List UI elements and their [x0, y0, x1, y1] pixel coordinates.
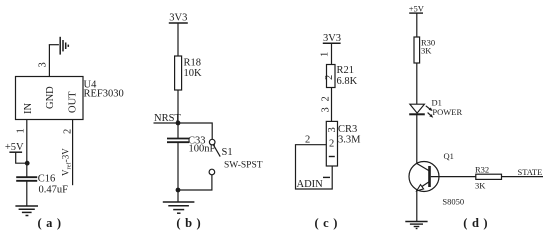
op-amp U4 box REF3030	[16, 77, 84, 120]
svg-text:2: 2	[324, 75, 335, 80]
node junction (a)	[25, 161, 30, 166]
svg-text:6.8K: 6.8K	[337, 76, 358, 87]
wire R32 to STATE	[502, 176, 544, 178]
LED light arrow 1	[426, 106, 433, 111]
svg-text:2: 2	[329, 139, 334, 150]
svg-text:2: 2	[305, 135, 310, 146]
wire emitter to ground	[416, 190, 418, 222]
LED light arrow 2	[428, 113, 434, 118]
resonator CR3 box	[326, 121, 337, 166]
svg-text:+5V: +5V	[5, 142, 24, 153]
svg-text:OUT: OUT	[68, 91, 79, 113]
resistor R21	[327, 65, 336, 88]
wire node to C33	[177, 123, 179, 139]
svg-text:1: 1	[320, 52, 331, 57]
ground (top of a, rotated right)	[60, 37, 68, 55]
resistor R32	[476, 174, 502, 179]
svg-text:3: 3	[321, 107, 332, 112]
svg-text:100nF: 100nF	[189, 144, 216, 155]
wire to switch top	[178, 123, 212, 139]
wire pin1 vertical (a)	[26, 120, 28, 178]
transistor Q1 emitter	[417, 182, 430, 191]
svg-text:2: 2	[321, 96, 332, 101]
svg-text:(c): (c)	[315, 216, 342, 230]
wire base to R32	[431, 176, 476, 178]
wire 3V3 to R21	[331, 43, 333, 64]
svg-text:D1: D1	[432, 98, 442, 108]
wire pin2 vertical (a)	[72, 120, 74, 186]
svg-text:3: 3	[38, 62, 49, 67]
overbar dash after ADIN	[323, 176, 330, 178]
node junction (b bottom)	[176, 188, 181, 193]
wire 3V3 to R18	[177, 23, 179, 56]
svg-text:3K: 3K	[475, 181, 486, 191]
wire R21 to CR3	[331, 88, 333, 122]
wire LED to Q1	[416, 114, 418, 163]
svg-text:1: 1	[16, 128, 27, 133]
svg-text:GND: GND	[45, 86, 56, 109]
wire to ground (a top)	[49, 44, 59, 46]
wire +5V to R30	[416, 13, 418, 37]
svg-text:ADIN: ADIN	[297, 179, 324, 190]
svg-text:SW-SPST: SW-SPST	[224, 161, 263, 171]
svg-text:10K: 10K	[184, 68, 203, 79]
svg-text:POWER: POWER	[432, 107, 462, 117]
wire pin3 vertical (a)	[48, 45, 50, 77]
wire NRST stub	[154, 122, 179, 124]
svg-text:R18: R18	[184, 58, 202, 69]
pin number 1 inside CR3	[329, 156, 335, 158]
power 3V3 bar (b)	[169, 22, 188, 24]
svg-text:3: 3	[327, 127, 338, 132]
svg-text:(b): (b)	[176, 216, 205, 230]
LED D1 cathode bar	[409, 113, 425, 115]
wire cap to ground (a)	[26, 181, 28, 206]
ground (b)	[163, 202, 195, 213]
wire C33 to ground	[177, 142, 179, 202]
svg-text:S8050: S8050	[442, 197, 464, 207]
transistor Q1 base bar	[428, 166, 431, 187]
power +5V bar	[9, 151, 22, 153]
svg-text:R32: R32	[475, 165, 489, 175]
resistor R30	[414, 37, 420, 63]
ground (a bottom)	[15, 206, 38, 216]
svg-text:(a): (a)	[37, 216, 65, 230]
svg-text:Vref-3V: Vref-3V	[61, 148, 73, 176]
switch S1 bottom contact	[209, 169, 215, 175]
resistor R18	[175, 56, 182, 90]
svg-text:CR3: CR3	[338, 124, 357, 135]
capacitor C16	[16, 177, 37, 181]
svg-text:S1: S1	[222, 147, 233, 158]
wire R30 to LED	[416, 63, 418, 104]
svg-text:0.47uF: 0.47uF	[39, 185, 69, 196]
ground (d)	[405, 222, 427, 229]
svg-text:REF3030: REF3030	[84, 89, 124, 100]
wire from +5V	[16, 152, 28, 163]
power +5V bar (d)	[409, 12, 423, 14]
transistor Q1 circle	[409, 162, 439, 192]
svg-text:R21: R21	[337, 65, 355, 76]
power 3V3 bar (c)	[323, 42, 341, 44]
LED D1 triangle	[410, 104, 425, 113]
switch S1 lever	[213, 145, 220, 157]
svg-text:Q1: Q1	[444, 151, 454, 161]
switch S1 top contact	[209, 139, 215, 145]
wire CR3 pin2 loop to ADIN	[296, 145, 333, 189]
svg-text:3V3: 3V3	[323, 33, 341, 44]
transistor Q1 collector	[417, 164, 430, 172]
capacitor C33	[167, 139, 189, 143]
svg-text:3.3M: 3.3M	[338, 135, 361, 146]
wire switch bottom to node	[178, 175, 212, 190]
node NRST junction	[176, 121, 181, 126]
svg-text:STATE: STATE	[518, 167, 543, 177]
svg-text:C16: C16	[38, 174, 56, 185]
svg-text:3V3: 3V3	[169, 13, 187, 24]
svg-text:+5V: +5V	[409, 4, 425, 14]
svg-text:3K: 3K	[421, 46, 432, 56]
wire R18 to node NRST	[177, 90, 179, 123]
svg-text:(d): (d)	[463, 216, 492, 230]
svg-text:2: 2	[63, 129, 74, 134]
svg-text:IN: IN	[23, 103, 34, 114]
